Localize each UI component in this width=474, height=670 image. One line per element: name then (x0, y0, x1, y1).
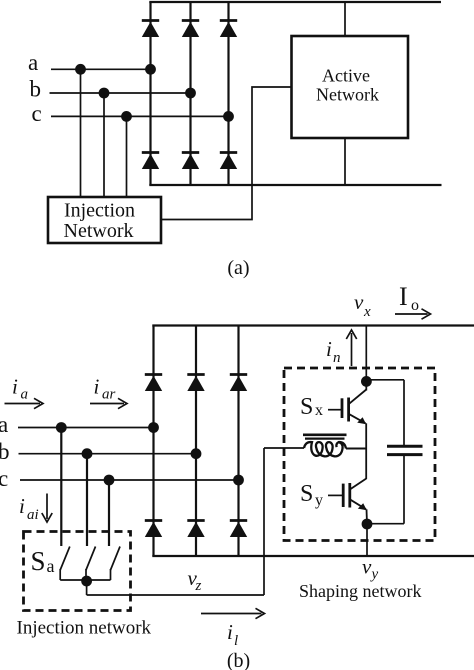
wire: inductor right lead (346, 448, 366, 450)
svg-text:a: a (0, 412, 8, 437)
wire: v_x lead from top rail into shaping box (365, 326, 367, 382)
svg-text:v: v (362, 555, 372, 579)
svg-text:i: i (94, 375, 100, 399)
diode D5 (lower leg2) (182, 153, 199, 170)
svg-text:x: x (315, 402, 323, 419)
wire: phase a line (a) (51, 68, 151, 70)
wire: phase b line (b) (19, 453, 197, 455)
wire: drop c to switch Sa (108, 480, 110, 546)
svg-text:v: v (354, 290, 364, 314)
wire: riser from v_z line to inductor (263, 448, 265, 595)
wire: drop a to switch Sa (60, 428, 62, 547)
wire: bridge leg 1 (b) (152, 326, 154, 557)
wire: bridge leg 3 (a) (227, 2, 229, 185)
node: phase b tap (a) (99, 88, 110, 99)
svg-text:n: n (333, 350, 341, 366)
svg-text:Network: Network (316, 85, 379, 105)
node: phase a tap (b) (56, 422, 67, 433)
svg-text:b: b (30, 77, 42, 102)
node: phase a tap (a) (75, 64, 86, 75)
wire: phase c line (b) (20, 479, 239, 481)
wire: injection box to active network connector (161, 87, 292, 220)
svg-text:b: b (0, 439, 10, 464)
svg-text:a: a (47, 556, 55, 576)
svg-text:i: i (227, 620, 233, 644)
node: phase a on bridge leg1 (b) (148, 422, 159, 433)
svg-text:I: I (399, 282, 408, 311)
diode D10 (lower leg1 b) (145, 521, 162, 538)
svg-text:Injection network: Injection network (17, 618, 152, 639)
wire: blade2 lower lead (85, 569, 87, 580)
node: phase a on bridge leg1 (a) (145, 64, 156, 75)
diode D1 (upper leg1) (142, 21, 159, 38)
wire: phase c line (a) (51, 115, 229, 117)
node: phase c on bridge leg3 (b) (233, 475, 244, 486)
arrow: I_o current direction (395, 313, 428, 315)
svg-text:Active: Active (322, 66, 370, 86)
svg-text:c: c (0, 466, 8, 491)
wire: Sa common bar (60, 579, 110, 581)
svg-text:i: i (326, 337, 332, 361)
svg-text:Shaping network: Shaping network (299, 581, 421, 601)
svg-text:c: c (32, 101, 42, 126)
diode D11 (lower leg2 b) (187, 521, 204, 538)
wire: top DC rail (b) (152, 324, 474, 326)
wire: phase a line (b) (18, 427, 154, 429)
diode D3 (upper leg3) (220, 21, 237, 38)
diode D2 (upper leg2) (182, 21, 199, 38)
wire: bridge leg 2 (b) (195, 326, 197, 557)
node: shaping top junction (361, 376, 372, 387)
svg-text:(a): (a) (227, 257, 249, 279)
node: phase b on bridge leg2 (a) (185, 88, 196, 99)
wire: top rail to active network (344, 2, 346, 36)
figure (b): bridge with injection and shaping networks (0, 282, 474, 670)
svg-text:Injection: Injection (64, 200, 135, 222)
diode D6 (lower leg3) (220, 153, 237, 170)
svg-text:z: z (195, 578, 202, 594)
svg-text:S: S (300, 481, 313, 507)
node: Sa common junction (81, 576, 92, 587)
wire: blade1 lower lead (59, 569, 61, 580)
wire: bottom node to capacitor (367, 523, 404, 525)
inductor L (filter inductor) (303, 435, 347, 457)
svg-text:o: o (411, 297, 419, 314)
arrow: i_a current direction (5, 403, 41, 405)
wire: v_z line to shaping network (87, 594, 264, 596)
wire: phase b line (a) (50, 92, 191, 94)
wire: bridge leg 1 (a) (149, 2, 151, 185)
svg-text:S: S (300, 394, 313, 420)
diode D12 (lower leg3 b) (230, 521, 247, 538)
svg-text:ai: ai (27, 507, 39, 523)
wire: v_y lead from bottom node to bottom rail (366, 524, 368, 556)
wire: bottom DC rail (b) (152, 555, 474, 557)
wire: bottom DC rail (a) (149, 184, 441, 186)
node: phase c tap (a) (121, 111, 132, 122)
svg-text:(b): (b) (227, 650, 250, 670)
wire: top node to capacitor (366, 379, 404, 381)
node: phase b tap (b) (82, 448, 93, 459)
block: Injection Network box (a) (48, 197, 161, 243)
diode D8 (upper leg2 b) (187, 375, 204, 392)
wire: drop b to switch Sa (86, 454, 88, 546)
wire: inductor left lead (264, 447, 304, 449)
svg-text:l: l (234, 633, 238, 649)
arrow: i_l current direction (201, 613, 262, 615)
figure (a): three-phase diode bridge with Active Network (28, 2, 442, 279)
svg-text:S: S (31, 546, 46, 576)
block: injection network dashed box (b) (24, 532, 131, 611)
arrow: i_n current direction (up) (351, 333, 353, 366)
switch Sa blade 2 (86, 547, 96, 571)
svg-text:y: y (315, 492, 323, 509)
diode D4 (lower leg1) (142, 153, 159, 170)
block: shaping network dashed box (284, 368, 435, 541)
arrow: i_ai current direction (down) (46, 494, 48, 520)
wire: active network to bottom rail (344, 138, 346, 185)
wire: drop a to injection box (80, 69, 82, 197)
switch Sa blade 3 (111, 547, 121, 571)
transistor Sy (IGBT) (328, 479, 367, 511)
wire: drop c to injection box (126, 116, 128, 197)
svg-text:i: i (12, 375, 18, 399)
diode D7 (upper leg1 b) (145, 375, 162, 392)
node: phase b on bridge leg2 (b) (191, 448, 202, 459)
svg-text:Network: Network (64, 220, 134, 242)
wire: bridge leg 3 (b) (237, 326, 239, 557)
svg-text:a: a (21, 387, 29, 403)
capacitor C (shaping capacitor) (387, 380, 423, 524)
wire: top DC rail (a) (149, 1, 441, 3)
svg-text:ar: ar (102, 387, 116, 403)
arrow: i_ar current direction (90, 403, 124, 405)
node: phase c on bridge leg3 (a) (223, 111, 234, 122)
svg-text:i: i (19, 494, 25, 518)
node: phase c tap (b) (104, 475, 115, 486)
wire: drop b to injection box (103, 93, 105, 197)
svg-text:a: a (28, 50, 38, 75)
block: Active Network box (292, 36, 409, 138)
switch Sa blade 1 (60, 547, 70, 571)
wire: Sa down lead (86, 581, 88, 595)
wire: Sx emitter to Sy collector vertical (365, 423, 367, 479)
svg-text:x: x (363, 304, 371, 320)
wire: bridge leg 2 (a) (189, 2, 191, 185)
svg-text:y: y (370, 567, 379, 583)
wire: blade3 lower lead (110, 569, 112, 580)
transistor Sx (IGBT) (328, 381, 366, 424)
diode D9 (upper leg3 b) (230, 375, 247, 392)
node: shaping bottom junction (362, 519, 373, 530)
wire: Sy emitter to bottom node (366, 509, 369, 524)
